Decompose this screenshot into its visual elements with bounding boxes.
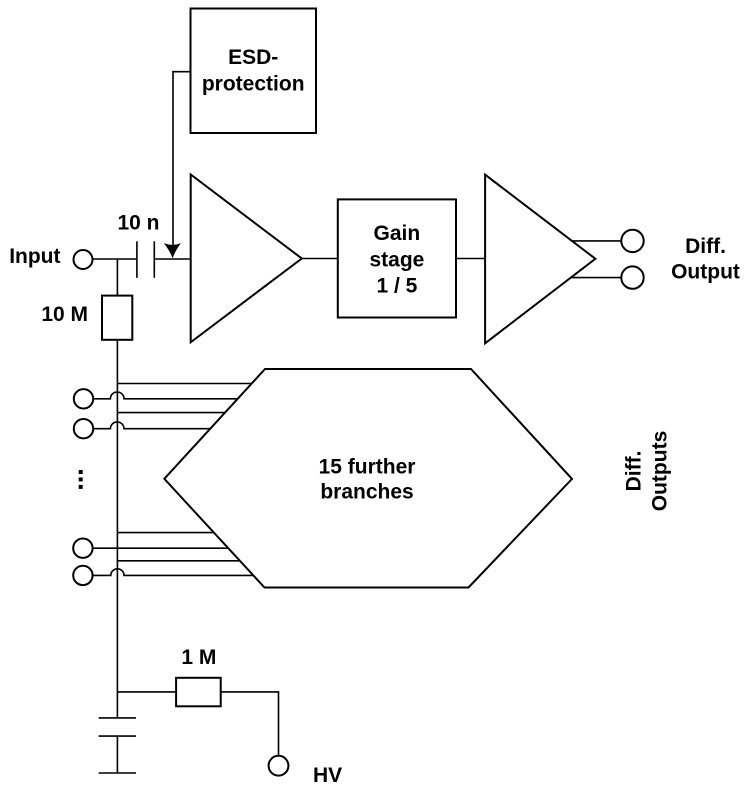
resistor R1 — [102, 296, 132, 340]
wire branch D with hop — [93, 422, 211, 429]
svg-text:10 n: 10 n — [117, 211, 159, 234]
svg-text:Diff.: Diff. — [685, 235, 726, 258]
terminal output + — [621, 230, 643, 252]
wire input terminal to capacitor C1 — [93, 258, 137, 260]
svg-text:1 M: 1 M — [181, 646, 216, 669]
wire A2 to output terminal + — [571, 240, 621, 242]
svg-text:Diff.: Diff. — [623, 451, 646, 492]
terminal branch D — [74, 419, 93, 438]
block gain stage 1/5 — [338, 199, 456, 317]
resistor R2 — [176, 678, 221, 707]
wire branch G — [117, 560, 240, 562]
terminal input — [74, 250, 93, 269]
svg-text:Input: Input — [9, 245, 60, 268]
terminal HV — [269, 756, 289, 776]
wire R2 to HV corner — [221, 692, 279, 756]
amplifier A1 — [191, 175, 302, 343]
wire branch F — [93, 547, 229, 549]
block ESD-protection — [191, 9, 317, 134]
svg-text:Gain: Gain — [374, 222, 421, 245]
svg-text:10 M: 10 M — [41, 303, 88, 326]
dots ellipsis — [79, 470, 83, 489]
wire A1 to gain stage — [302, 258, 338, 260]
svg-text:15 further: 15 further — [319, 456, 416, 479]
svg-text:ESD-: ESD- — [228, 46, 278, 69]
svg-text:Outputs: Outputs — [649, 431, 672, 511]
wire ESD-protection to arrow — [173, 72, 191, 245]
terminal branch H — [73, 566, 92, 585]
wire input node down to resistor R1 — [116, 259, 118, 296]
wire R1 down bus — [116, 340, 118, 718]
label Diff. Outputs rotated — [623, 431, 672, 511]
capacitor C1 — [137, 241, 154, 277]
ground bar — [99, 772, 136, 774]
wire bus to resistor R2 — [117, 691, 176, 693]
wire branch E — [117, 532, 216, 534]
svg-text:Output: Output — [671, 261, 740, 284]
amplifier A2 — [485, 175, 595, 344]
wire branch C — [117, 412, 227, 414]
svg-text:protection: protection — [202, 73, 305, 96]
wire branch H with hop — [93, 569, 253, 576]
wire branch A top — [117, 383, 252, 385]
wire branch B with hop — [93, 392, 238, 399]
wire C2 to ground bar — [116, 736, 118, 773]
capacitor C2 plate top — [99, 717, 136, 719]
block hexagon 15 further branches — [164, 369, 572, 588]
capacitor C2 plate bottom — [99, 735, 136, 737]
wire capacitor C1 to amplifier A1 — [154, 258, 190, 260]
svg-text:stage: stage — [369, 248, 424, 271]
wire gain stage to amplifier A2 — [456, 258, 485, 260]
arrowhead into input node — [164, 243, 181, 258]
svg-text:branches: branches — [320, 481, 413, 504]
svg-text:HV: HV — [313, 764, 342, 787]
terminal output - — [621, 266, 643, 288]
terminal branch B — [74, 389, 93, 408]
wire A2 to output terminal - — [570, 277, 621, 279]
terminal branch F — [73, 539, 92, 558]
svg-text:1 / 5: 1 / 5 — [376, 274, 417, 297]
